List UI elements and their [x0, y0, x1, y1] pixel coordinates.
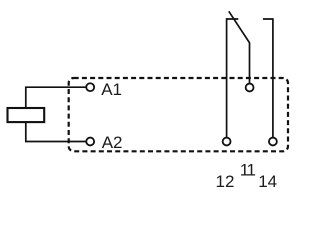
wire coil bottom to A2 [26, 123, 86, 142]
svg-text:14: 14 [258, 172, 277, 191]
svg-text:A1: A1 [101, 80, 122, 99]
wire coil top to A1 [26, 87, 86, 107]
svg-text:12: 12 [216, 172, 235, 191]
terminal 14 [269, 138, 277, 146]
coil K1 [8, 108, 45, 122]
terminal 12 [223, 138, 231, 146]
relay outline (dashed box) [69, 78, 288, 151]
terminal 11 [246, 84, 254, 92]
fixed contact 12 (NC) wire [227, 19, 239, 137]
svg-text:A2: A2 [102, 133, 123, 152]
terminal A1 [86, 83, 94, 91]
fixed contact 14 (NO) wire [263, 19, 273, 137]
movable contact arm 11 [229, 11, 250, 83]
svg-text:11: 11 [240, 161, 256, 180]
terminal A2 [86, 138, 94, 146]
